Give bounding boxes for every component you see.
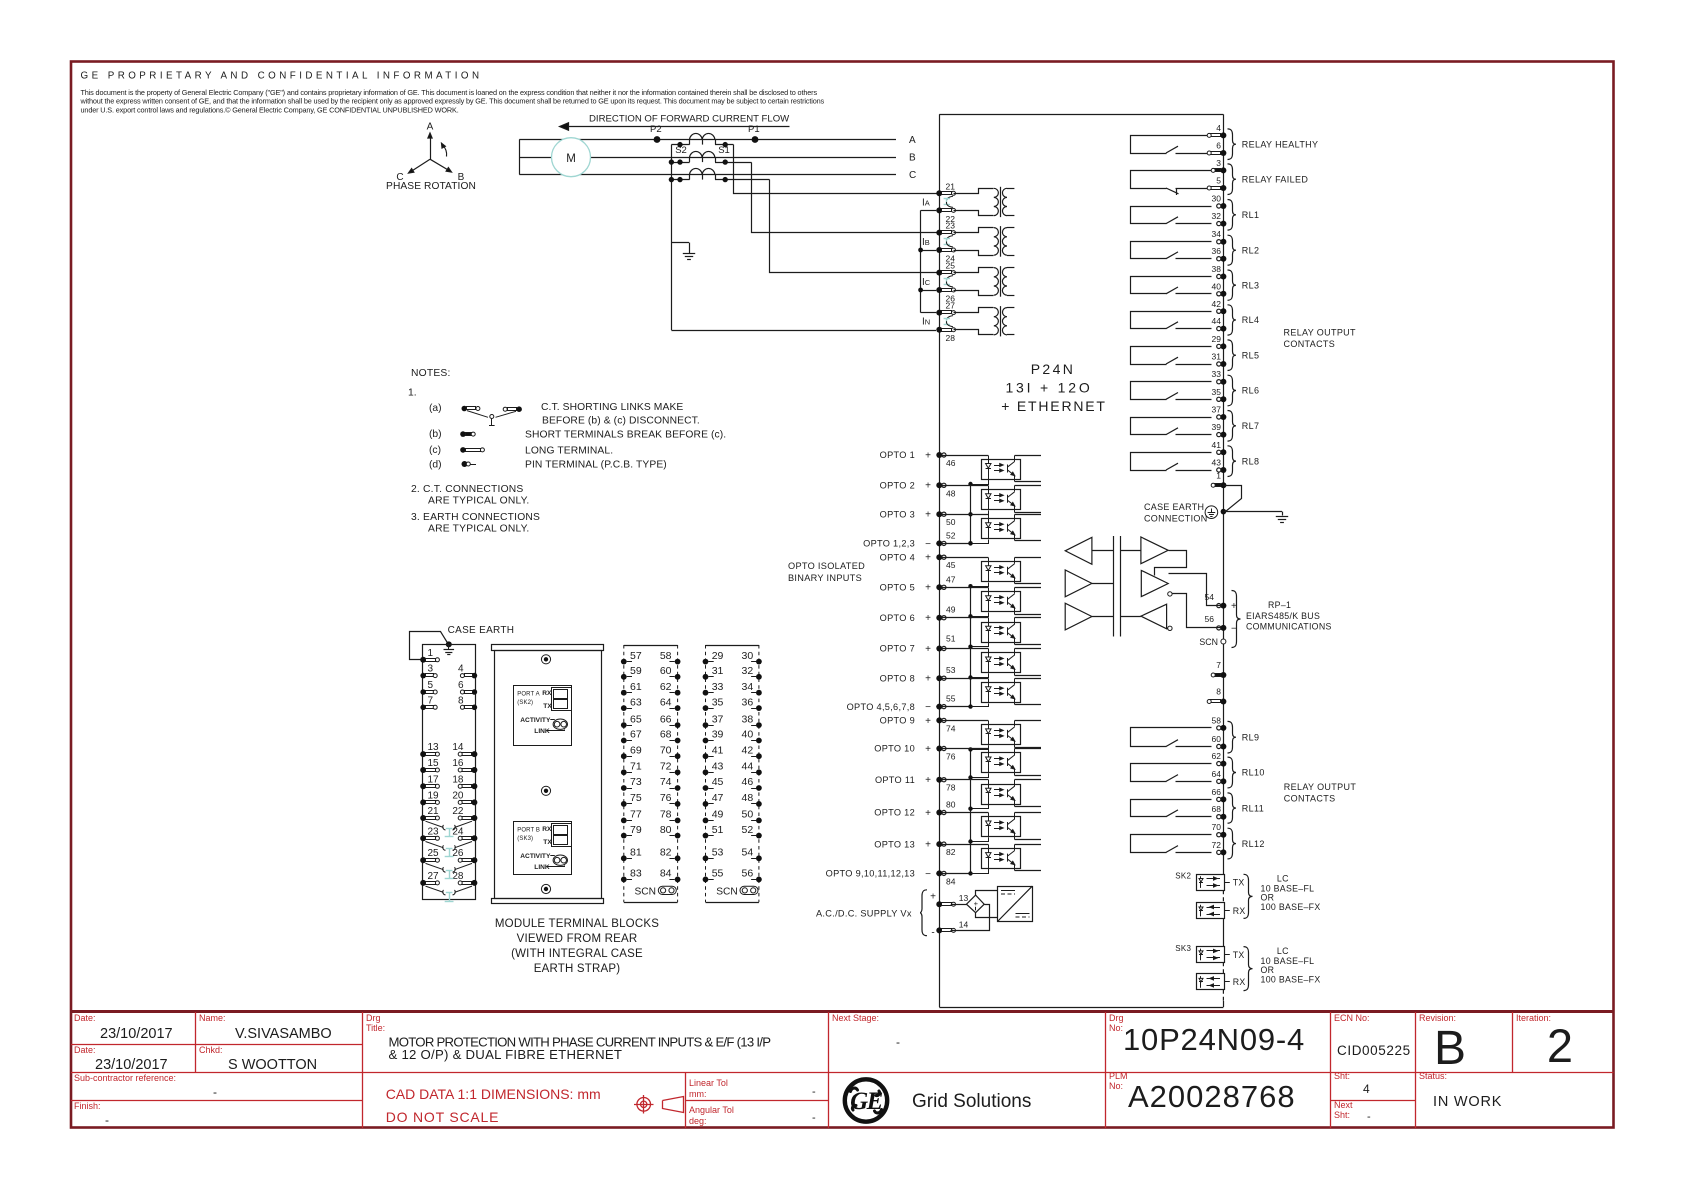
svg-text:COMMUNICATIONS: COMMUNICATIONS [1246,622,1332,632]
wire S2 tap A [671,142,689,147]
RS485 buffer U-tx internal [1065,570,1113,597]
svg-text:55: 55 [946,694,956,704]
wire opto 47 return [968,613,988,619]
svg-text:RL1: RL1 [1242,210,1260,220]
svg-text:33: 33 [712,681,724,693]
optocoupler OPTO input 50 [982,515,1042,541]
terminal 52 [936,530,955,546]
svg-text:43: 43 [712,761,724,773]
svg-text:31: 31 [1212,352,1222,362]
terminal 51 [703,824,724,839]
terminal 52 [742,824,762,839]
svg-text:ACTIVITY: ACTIVITY [520,853,551,860]
RS485 driver U-A [1120,537,1168,564]
svg-text:RELAY OUTPUT: RELAY OUTPUT [1284,782,1357,792]
svg-text:RL4: RL4 [1242,315,1260,325]
svg-text:P2: P2 [650,124,662,135]
svg-text:OPTO 4: OPTO 4 [880,552,915,562]
terminal 46 [742,776,762,791]
fiber optic SK2 TX [1197,875,1245,891]
svg-text:51: 51 [712,824,724,836]
panel screw 1 [541,655,550,664]
svg-text:21: 21 [428,806,440,817]
fiber optic SK2 RX [1197,903,1246,919]
brace RS485 [1232,591,1241,648]
terminal 68 [1212,804,1227,820]
svg-text:13: 13 [959,893,969,903]
note 1c symbol [460,447,484,453]
brace RL3 [1228,270,1237,300]
svg-text:TX: TX [543,703,552,710]
svg-text:16: 16 [452,758,464,769]
svg-text:RL8: RL8 [1242,456,1260,466]
wire terminal 78 to opto [942,780,988,785]
terminal 36 [1212,246,1227,262]
svg-text:(d): (d) [429,460,442,471]
svg-text:82: 82 [660,847,672,859]
wire terminal 50 to opto [942,515,988,519]
terminal 5 [420,680,437,695]
svg-text:83: 83 [630,868,642,880]
RS485 receiver U-C [1120,604,1172,630]
terminal 41 [1212,440,1227,456]
label OPTO ISOLATED BINARY INPUTS [788,561,865,583]
svg-text:& 12 O/P) & DUAL FIBRE ETHERNE: & 12 O/P) & DUAL FIBRE ETHERNET [389,1047,623,1062]
svg-text:OPTO 7: OPTO 7 [880,644,915,654]
terminal 24 [452,826,477,841]
terminal 70 [660,744,681,759]
svg-text:22: 22 [452,806,464,817]
terminal 23 [420,826,439,841]
svg-text:ECN No:: ECN No: [1334,1013,1370,1023]
relay contact RL5 [1131,347,1212,365]
svg-text:58: 58 [1212,715,1222,725]
wire driver enable zigzag [1155,551,1187,576]
svg-text:PLM: PLM [1109,1071,1128,1081]
svg-text:-: - [213,1085,217,1099]
relay contact RL7 [1131,418,1212,435]
svg-text:57: 57 [630,650,642,662]
svg-text:100 BASE–FX: 100 BASE–FX [1261,974,1321,984]
svg-text:Angular Tol: Angular Tol [689,1105,734,1115]
svg-text:RELAY HEALTHY: RELAY HEALTHY [1242,139,1319,149]
terminal 20 [452,790,477,805]
wire opto 50 return [968,540,988,546]
svg-text:+: + [925,808,931,819]
brace RL5 [1228,340,1237,371]
terminal 28 [452,871,477,886]
phase labels A B C [909,135,916,181]
terminal 82 [936,841,955,857]
module rear panel outline [492,645,604,904]
svg-text:50: 50 [742,809,754,821]
svg-text:45: 45 [946,560,956,570]
label RL6 [1242,386,1260,396]
svg-text:-: - [931,928,934,939]
terminal 16 [452,758,477,773]
wire rectifier to terminal 14 [951,905,990,931]
terminal 5 [1207,176,1226,192]
CT shorting link 23-24 [944,236,953,247]
svg-text:PIN TERMINAL (P.C.B. TYPE): PIN TERMINAL (P.C.B. TYPE) [525,460,667,471]
terminal 39 [1212,422,1227,438]
svg-text:40: 40 [1212,281,1222,291]
brace RL2 [1228,235,1237,265]
terminal 60 [660,665,681,680]
svg-text:10P24N09-4: 10P24N09-4 [1123,1022,1305,1057]
svg-text:(b): (b) [429,429,442,440]
svg-text:+: + [925,744,931,755]
svg-text:19: 19 [428,790,440,801]
terminal 84 [936,870,955,886]
note 3 [411,512,540,535]
terminal 77 [621,809,642,824]
terminal 30 [742,650,762,665]
CT shorting link 21-22 [944,196,953,207]
PORT A SK2 [514,686,572,746]
svg-text:18: 18 [452,774,464,785]
wire opto 80 return [968,838,988,844]
earth tap on CT bus [672,243,690,254]
GE logo [845,1079,887,1121]
svg-text:100 BASE–FX: 100 BASE–FX [1261,902,1321,912]
svg-text:Name:: Name: [199,1013,226,1023]
wire terminal 1 to case earth [1224,486,1242,512]
wire terminal 54 path [1169,574,1224,606]
svg-text:CAD DATA 1:1 DIMENSIONS: mm: CAD DATA 1:1 DIMENSIONS: mm [386,1086,601,1102]
RS485 isolation barrier [1114,536,1121,637]
terminal 78 [660,809,681,824]
label OPTO 3 + [880,509,931,520]
svg-text:NOTES:: NOTES: [411,368,451,379]
wire terminal 48 to opto [942,486,988,490]
power supply unit [998,886,1033,921]
svg-text:-: - [812,1112,816,1124]
terminal 13 [420,742,439,757]
label SK2 LC 10BASE-FL OR 100BASE-FX [1261,874,1321,913]
terminal 38 [1212,264,1227,280]
terminal 80 [936,800,955,816]
terminal 14 [931,920,968,939]
phase line A [519,139,896,141]
svg-text:IA: IA [922,197,930,208]
label OPTO 9 + [880,716,931,727]
svg-text:78: 78 [946,783,956,793]
wire 13 to rectifier [951,904,967,906]
svg-text:44: 44 [1212,316,1222,326]
svg-text:B: B [1434,1022,1466,1075]
terminal 64 [660,696,681,711]
svg-text:TX: TX [1233,878,1245,888]
terminal 59 [621,665,642,680]
svg-text:-: - [896,1035,900,1049]
svg-text:+: + [925,583,931,594]
svg-text:Linear Tol: Linear Tol [689,1078,728,1088]
svg-text:+: + [925,716,931,727]
opto group 2 return bus [936,586,972,709]
wire opto 53 return [971,704,989,707]
svg-text:45: 45 [712,776,724,788]
wire opto 46 return [968,480,988,487]
svg-text:ARE TYPICAL ONLY.: ARE TYPICAL ONLY. [428,496,529,507]
svg-text:Sht:: Sht: [1334,1071,1350,1081]
terminal 24 [936,247,955,264]
fiber optic SK3 TX [1197,947,1245,963]
wire terminal 51 to opto [942,649,988,653]
optocoupler OPTO input 48 [982,486,1042,513]
svg-text:SK3: SK3 [1175,944,1191,953]
terminal 14 [452,742,477,757]
optocoupler OPTO input 49 [982,618,1042,645]
panel screw 2 [541,786,550,795]
terminal 27 [936,301,955,316]
brace RL7 [1228,411,1237,442]
svg-text:35: 35 [712,696,724,708]
svg-text:OPTO 9,10,11,12,13: OPTO 9,10,11,12,13 [826,869,915,879]
terminal 40 [742,729,762,744]
label OPTO 12 + [874,808,931,819]
svg-text:84: 84 [660,868,672,880]
svg-text:ACTIVITY: ACTIVITY [520,717,551,724]
svg-text:56: 56 [742,868,754,880]
opto group 3 return bus [936,749,972,875]
svg-text:This document is the property: This document is the property of General… [81,88,818,97]
relay contact RL10 [1131,764,1212,782]
svg-text:PORT A: PORT A [517,691,539,697]
terminal 55 [936,694,955,710]
svg-text:RL9: RL9 [1242,732,1260,742]
svg-text:3: 3 [428,664,434,675]
optocoupler OPTO input 53 [982,679,1042,705]
svg-text:47: 47 [712,792,724,804]
label IB [922,237,930,248]
svg-text:36: 36 [1212,246,1222,256]
terminal 53 [703,847,724,862]
wire terminal 47 to opto [942,588,988,592]
svg-text:13: 13 [428,742,440,753]
svg-text:53: 53 [946,665,956,675]
svg-text:6: 6 [458,680,464,691]
svg-text:17: 17 [428,774,440,785]
CT shorting link 25-26 [944,276,953,287]
svg-text:80: 80 [946,800,956,810]
terminal 76 [660,792,681,807]
terminal 58 [660,650,681,665]
label RL2 [1242,245,1260,255]
svg-text:SCN: SCN [635,887,657,898]
svg-text:CONNECTION: CONNECTION [1144,514,1208,524]
svg-text:RX: RX [542,826,552,833]
svg-text:78: 78 [660,809,672,821]
terminal 65 [621,713,642,728]
terminal 32 [742,665,762,680]
CT secondary bus S2 vertical [671,145,673,330]
brace RELAY HEALTHY [1228,129,1237,160]
terminal 22 [936,207,955,224]
label IN [922,317,930,328]
brace RL1 [1228,200,1237,231]
svg-text:64: 64 [1212,769,1222,779]
wire S1 tap B to terminal 23 [715,159,937,232]
svg-text:GE PROPRIETARY AND CONFIDENTIA: GE PROPRIETARY AND CONFIDENTIAL INFORMAT… [81,71,483,82]
note 1b text [429,429,726,441]
brace SK2 [1244,874,1253,918]
CT transformer IN [954,306,1015,336]
label IA [922,197,930,208]
svg-text:53: 53 [712,847,724,859]
wire terminal 53 to opto [942,679,988,683]
terminal 4 [458,664,477,679]
terminal 72 [660,761,681,776]
svg-text:RX: RX [1233,977,1246,987]
terminal 45 [936,554,955,570]
terminal SCN [1199,637,1225,647]
relay contact RL8 [1131,453,1212,471]
svg-text:A.C./D.C. SUPPLY Vx: A.C./D.C. SUPPLY Vx [816,909,912,919]
wire opto 45 return [968,583,988,589]
RS485 buffer U-en internal [1065,603,1113,630]
svg-text:(SK2): (SK2) [517,700,533,706]
svg-text:63: 63 [630,696,642,708]
svg-text:59: 59 [630,665,642,677]
panel screw 3 [541,884,550,893]
svg-text:OPTO 5: OPTO 5 [880,583,915,593]
terminal 76 [936,746,955,762]
terminal 84 [660,868,681,883]
label RELAY FAILED [1242,174,1309,184]
svg-text:CASE EARTH: CASE EARTH [1144,502,1204,512]
RS485 driver U-B [1141,570,1172,596]
terminal 83 [621,868,642,883]
svg-text:−: − [925,869,931,880]
wire opto 82 return [971,869,989,874]
terminal 39 [703,729,724,744]
wire opto 78 return [968,805,988,811]
svg-text:IC: IC [922,277,931,288]
label RL12 [1242,839,1265,849]
svg-text:61: 61 [630,681,642,693]
note 1b symbol [460,431,475,437]
terminal 66 [660,713,681,728]
terminal 60 [1212,734,1227,750]
svg-text:36: 36 [742,696,754,708]
svg-text:OPTO 12: OPTO 12 [874,808,915,818]
terminal 48 [742,792,762,807]
svg-text:81: 81 [630,847,642,859]
svg-text:DIRECTION OF FORWARD CURREN: DIRECTION OF FORWARD CURRENT FLOW [589,114,790,125]
svg-text:OPTO 1,2,3: OPTO 1,2,3 [863,539,915,549]
svg-text:7: 7 [1216,660,1221,670]
svg-text:+: + [925,553,931,564]
svg-text:29: 29 [1212,334,1222,344]
svg-text:4: 4 [458,664,464,675]
optocoupler OPTO input 51 [982,649,1042,676]
terminal 78 [936,777,955,793]
terminal 42 [742,744,762,759]
CT B primary [690,151,716,162]
svg-text:Iteration:: Iteration: [1516,1013,1551,1023]
svg-text:40: 40 [742,729,754,741]
svg-text:CASE EARTH: CASE EARTH [448,625,515,636]
wire S2 bus to terminal 28 [671,330,936,332]
svg-text:OR: OR [1261,965,1275,975]
svg-text:M: M [566,153,576,165]
label OPTO 9,10,11,12,13 − [826,869,931,880]
CT A primary [690,133,716,144]
svg-text:38: 38 [1212,264,1222,274]
svg-text:SK2: SK2 [1175,872,1191,881]
svg-text:44: 44 [742,761,754,773]
terminal 50 [936,511,955,527]
terminal 33 [1212,369,1227,385]
terminal 66 [1212,787,1227,803]
P24N label [1001,361,1107,414]
svg-text:(a): (a) [429,403,442,414]
svg-text:64: 64 [660,696,672,708]
wire terminal 56 path [1173,594,1221,628]
svg-text:46: 46 [742,776,754,788]
svg-text:Next: Next [1334,1100,1353,1110]
wire S1 tap C to terminal 25 [715,177,937,273]
svg-text:IB: IB [922,237,930,248]
svg-text:51: 51 [946,634,956,644]
terminal 8 [458,695,477,710]
wire terminal 45 to opto [942,558,988,562]
svg-text:5: 5 [428,680,434,691]
svg-text:70: 70 [1212,822,1222,832]
svg-text:32: 32 [1212,211,1222,221]
terminal 6 [458,680,477,695]
svg-text:Drg: Drg [366,1013,381,1023]
svg-text:43: 43 [1212,458,1222,468]
CT star bus [918,210,936,312]
svg-text:C: C [909,170,916,181]
svg-text:72: 72 [1212,840,1222,850]
ground - CT bus [683,254,695,260]
label RP-1 EIARS485/K BUS COMMUNICATIONS [1246,600,1332,632]
label RL11 [1242,803,1264,813]
svg-text:Finish:: Finish: [74,1101,101,1111]
CT transformer IA [954,187,1015,217]
svg-text:+: + [925,674,931,685]
label OPTO 4 + [880,552,931,563]
svg-text:33: 33 [1212,369,1222,379]
svg-text:42: 42 [742,744,754,756]
terminal block B1 outline [423,645,476,900]
terminal 31 [1212,352,1227,368]
svg-text:RL6: RL6 [1242,386,1260,396]
svg-text:60: 60 [1212,734,1222,744]
svg-text:PORT B: PORT B [517,827,540,833]
svg-text:21: 21 [946,181,956,191]
optocoupler OPTO input 47 [982,588,1042,615]
svg-text:OR: OR [1261,893,1275,903]
relay contact RL2 [1131,242,1212,259]
svg-text:OPTO 2: OPTO 2 [880,481,915,491]
svg-text:27: 27 [428,871,440,882]
svg-text:LC: LC [1277,874,1289,884]
svg-text:5: 5 [1216,176,1221,186]
relay contact RL3 [1131,277,1212,294]
svg-text:25: 25 [428,848,440,859]
svg-text:74: 74 [660,776,672,788]
svg-text:(c): (c) [429,445,441,456]
svg-text:without the express written co: without the express written consent of G… [80,97,825,106]
terminal 79 [621,824,642,839]
label RL9 [1242,732,1260,742]
terminal 23 [936,221,955,236]
wire S2 tap C [669,177,690,182]
